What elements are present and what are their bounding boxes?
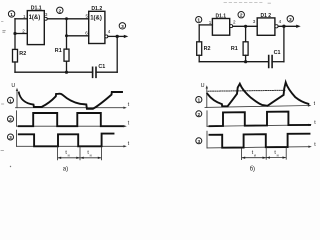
gate D1.1: [27, 11, 44, 45]
svg-text:3: 3: [253, 19, 256, 24]
svg-text:4: 4: [279, 19, 282, 24]
node 2 waveform circle: [8, 116, 14, 123]
dimension arrows left: [58, 157, 80, 159]
wire pin6 D1.2: [67, 35, 89, 37]
svg-text:3: 3: [45, 12, 48, 17]
junction output right: [282, 25, 285, 28]
speck: [10, 166, 11, 167]
wire D1.1 out to D1.2 pin5: [47, 18, 88, 20]
svg-text:3: 3: [121, 24, 124, 30]
svg-text:D1.1: D1.1: [216, 14, 227, 20]
wire vertical node2: [66, 19, 68, 49]
node 3 waveform circle: [8, 134, 14, 141]
waveform 3 left: [19, 134, 114, 147]
svg-text:и: и: [68, 153, 70, 157]
axis 3 right: [207, 131, 316, 148]
axis 2 left: [17, 111, 130, 128]
svg-text:U: U: [11, 83, 15, 89]
junction bottom R1: [65, 71, 68, 74]
svg-text:C1: C1: [274, 50, 281, 56]
t_i label 1 left: [65, 150, 69, 157]
wire R1 bottom right: [245, 55, 247, 61]
svg-text:б): б): [250, 166, 255, 172]
svg-text:D1.2: D1.2: [91, 6, 102, 12]
svg-text:R2: R2: [19, 51, 26, 57]
svg-text:1: 1: [197, 18, 200, 24]
svg-text:C1: C1: [98, 64, 105, 70]
node 3 right: [287, 16, 293, 23]
waveform 1 right sawtooth: [207, 82, 308, 106]
resistor R2: [13, 49, 27, 62]
svg-text:1(&): 1(&): [90, 16, 102, 22]
wire node1 down right: [198, 25, 200, 42]
node 1 right: [196, 17, 202, 24]
t_i label 2 right: [274, 150, 278, 157]
svg-text:4: 4: [108, 29, 111, 34]
svg-text:6: 6: [85, 31, 88, 36]
wire D1.1 out right: [233, 25, 257, 27]
svg-text:D1 2: D1 2: [261, 13, 272, 19]
wire D1.2 out: [108, 35, 117, 37]
waveform 3 right: [210, 134, 310, 148]
resistor R2 right: [197, 42, 211, 56]
wire output down: [116, 36, 118, 72]
wire pin1 right: [199, 24, 212, 26]
svg-text:3: 3: [9, 135, 12, 141]
svg-text:2: 2: [58, 8, 61, 14]
junction output: [116, 35, 119, 38]
svg-text:а): а): [63, 166, 68, 172]
svg-text:и: и: [254, 153, 256, 157]
bubble D1.2 output: [105, 35, 108, 38]
svg-text:2: 2: [9, 117, 12, 123]
junction node1/pin2: [13, 32, 16, 35]
svg-text:1: 1: [9, 98, 12, 104]
bubble D1.1 right: [230, 25, 233, 28]
axis 1 left: [16, 88, 130, 109]
node 3 waveform circle right: [196, 138, 202, 145]
wire pin1 D1.1: [15, 18, 27, 20]
node 1 waveform circle right: [196, 97, 202, 104]
node 2 right: [238, 12, 244, 19]
dimension marker lines left: [58, 147, 102, 160]
axis 2 right: [207, 111, 316, 127]
junction bottom R1 right: [244, 60, 247, 63]
wire D1.2 out right + arrow: [278, 25, 301, 28]
axis 3 left: [17, 130, 130, 147]
svg-text:U: U: [201, 83, 205, 89]
gate D1.2: [89, 11, 105, 43]
gate D1.2 right: [257, 18, 275, 35]
svg-text:2: 2: [233, 19, 236, 24]
wire vertical node1: [14, 19, 16, 50]
svg-text:3: 3: [289, 17, 292, 23]
bottom wire right segment: [272, 61, 284, 63]
svg-text:2: 2: [22, 29, 25, 34]
svg-text:R1: R1: [231, 46, 238, 52]
node 2: [57, 7, 63, 14]
svg-text:1: 1: [197, 98, 200, 104]
bottom wire left: [15, 71, 93, 73]
node 3: [119, 23, 125, 30]
junction pin6 branch: [65, 34, 68, 37]
capacitor C1 right: [269, 50, 281, 67]
t_i label 2 left: [87, 150, 91, 157]
node 1 waveform circle: [8, 97, 14, 104]
resistor R1: [55, 48, 69, 61]
wire R2 bottom right: [198, 55, 200, 61]
junction node2 top: [65, 17, 68, 20]
node 1: [8, 11, 14, 18]
bubble D1.1 output: [44, 17, 47, 20]
output arrow: [117, 35, 128, 38]
node 2 waveform circle right: [196, 111, 202, 118]
axis 1 right: [205, 85, 316, 107]
wire R1 bottom: [66, 61, 68, 72]
svg-text:1: 1: [10, 12, 13, 18]
svg-text:R1: R1: [55, 48, 62, 54]
gate D1.1 right: [212, 19, 229, 36]
resistor R1 right: [231, 42, 248, 56]
wire output down right: [283, 26, 285, 61]
wire R1 top right: [245, 26, 247, 42]
svg-text:1: 1: [209, 20, 212, 25]
wire pin2 D1.1: [15, 33, 27, 35]
bubble D1.2 right: [275, 25, 278, 28]
capacitor C1: [93, 64, 106, 77]
waveform 2 left: [19, 113, 123, 126]
t_i label 1 right: [252, 150, 256, 157]
svg-text:2: 2: [197, 112, 200, 118]
waveform 2 right: [210, 112, 311, 127]
svg-text:5: 5: [85, 13, 88, 18]
dimension marker lines right: [242, 148, 287, 160]
svg-text:2: 2: [240, 13, 243, 19]
bottom wire right: [96, 71, 117, 73]
junction R1 top right: [244, 25, 247, 28]
edge specks: [3, 31, 6, 33]
dimension arrows right: [242, 157, 266, 159]
waveform 1 left: [19, 92, 122, 109]
svg-text:1(&): 1(&): [29, 15, 41, 21]
svg-text:1: 1: [23, 14, 26, 19]
svg-text:3: 3: [197, 139, 200, 145]
threshold dotted line right: [208, 89, 286, 92]
bottom wire right circuit: [199, 61, 269, 63]
wire R2 bottom: [14, 62, 16, 72]
svg-text:R2: R2: [204, 46, 211, 52]
scan noise dashes: [224, 2, 271, 5]
svg-text:и: и: [277, 153, 279, 157]
svg-text:D1.1: D1.1: [31, 5, 42, 11]
svg-text:и: и: [90, 153, 92, 157]
